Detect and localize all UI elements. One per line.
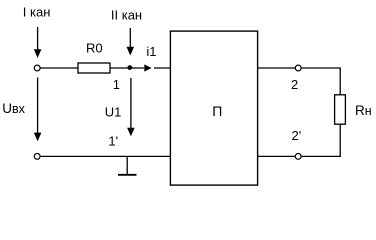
- wire: П to output terminal 2: [258, 67, 296, 69]
- wire: i1 arrow to network П: [154, 67, 171, 69]
- svg-text:1': 1': [108, 134, 118, 149]
- svg-text:П: П: [212, 103, 222, 119]
- svg-text:Uвх: Uвх: [2, 101, 25, 116]
- svg-text:1: 1: [113, 77, 120, 92]
- wire: terminal 2 to Rн: [301, 68, 340, 95]
- output terminal node 2': [295, 154, 301, 160]
- wire: Rн to terminal 2': [301, 124, 340, 156]
- voltage arrow Uвх: [34, 78, 42, 142]
- svg-text:R0: R0: [86, 41, 103, 56]
- svg-text:2': 2': [292, 128, 302, 143]
- svg-text:II кан: II кан: [111, 7, 142, 22]
- four-pole network box П: [170, 31, 257, 185]
- wire: terminal 2' to П: [258, 155, 295, 157]
- channel II input arrow: [127, 28, 135, 56]
- channel I input arrow: [34, 27, 42, 58]
- current arrow i1: [144, 64, 151, 71]
- input terminal node (bottom): [34, 154, 40, 160]
- junction node 1: [127, 65, 132, 70]
- voltage arrow U1: [127, 78, 135, 136]
- wire: bottom input terminal to network П: [40, 155, 171, 157]
- svg-text:2: 2: [291, 77, 298, 92]
- svg-text:i1: i1: [146, 44, 156, 59]
- resistor R0: [78, 63, 110, 73]
- svg-text:Rн: Rн: [355, 103, 372, 118]
- output terminal node 2: [295, 65, 301, 71]
- load resistor Rн: [335, 95, 346, 124]
- ground: [118, 156, 137, 174]
- wire: input terminal to R0: [40, 67, 78, 69]
- input terminal node (top): [34, 65, 40, 71]
- svg-text:I кан: I кан: [23, 4, 51, 19]
- wire: R0 to node 1: [110, 67, 144, 69]
- svg-text:U1: U1: [105, 104, 122, 119]
